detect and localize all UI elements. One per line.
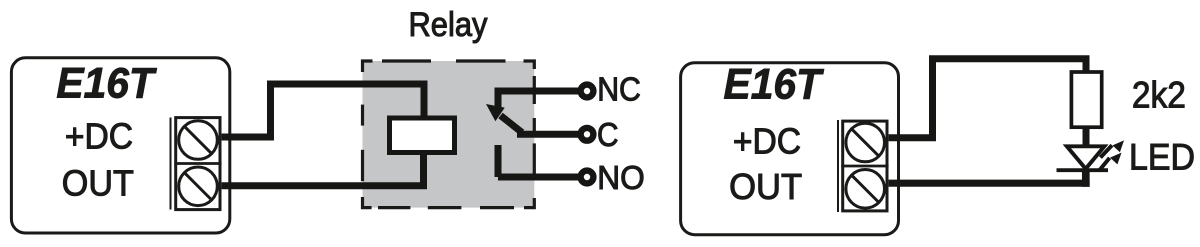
svg-text:NC: NC [597, 72, 641, 109]
wire to NO terminal [498, 174, 579, 181]
terminal block right flange [837, 120, 839, 212]
wire to C terminal [517, 131, 579, 138]
wire LED cathode down [1082, 169, 1090, 187]
LED light arrow 1 [1100, 140, 1124, 157]
NO terminal dot [581, 171, 594, 184]
terminal block (left) [171, 118, 222, 210]
device box U2 E16T (right) [681, 63, 899, 235]
switch lever [501, 116, 523, 133]
screw terminal +DC (left) [179, 121, 218, 160]
wire OUT to relay coil [222, 152, 424, 186]
NC terminal dot [581, 85, 594, 98]
NO fixed contact stub [495, 145, 502, 177]
screw terminal OUT (right) [846, 170, 885, 209]
screw terminal +DC (right) [846, 123, 885, 162]
device box U1 E16T (left) [11, 58, 229, 233]
terminal block divider (right) [841, 165, 888, 168]
wire +DC to resistor [889, 59, 1086, 138]
top edge dashes [363, 61, 373, 72]
right edge dashes [533, 76, 536, 104]
relay enclosure dashed border [363, 61, 535, 208]
LED cathode bar [1057, 168, 1109, 172]
wire resistor to LED [1083, 126, 1090, 147]
LED D1 triangle [1067, 146, 1105, 169]
svg-text:+DC: +DC [65, 116, 133, 157]
svg-text:E16T: E16T [724, 61, 825, 109]
wire +DC to relay coil [222, 84, 424, 137]
terminal block outer frame [176, 118, 220, 210]
svg-text:OUT: OUT [729, 166, 802, 207]
terminal block left flange [170, 118, 172, 210]
svg-text:+DC: +DC [733, 120, 801, 161]
wire to NC terminal [498, 88, 579, 95]
relay enclosure (gray body) [363, 61, 535, 208]
terminal block (right) [838, 120, 889, 212]
terminal block divider [174, 162, 221, 165]
LED light arrow 2 [1099, 153, 1121, 171]
svg-text:Relay: Relay [409, 6, 488, 44]
svg-text:2k2: 2k2 [1132, 75, 1186, 116]
NC fixed contact stub [495, 88, 502, 111]
svg-text:OUT: OUT [62, 162, 134, 203]
left edge dashes [361, 105, 364, 126]
resistor R1 [1071, 72, 1101, 127]
relay coil [390, 118, 455, 153]
terminal block outer frame (right) [843, 121, 887, 211]
C terminal dot [581, 128, 594, 141]
svg-text:C: C [597, 117, 619, 154]
switch lever arrowhead [486, 104, 505, 121]
svg-text:NO: NO [597, 160, 645, 197]
screw terminal OUT (left) [179, 167, 218, 206]
bottom edge dashes [363, 197, 372, 208]
svg-text:E16T: E16T [56, 59, 157, 107]
svg-text:LED: LED [1129, 136, 1195, 177]
wire OUT to LED [889, 180, 1090, 187]
